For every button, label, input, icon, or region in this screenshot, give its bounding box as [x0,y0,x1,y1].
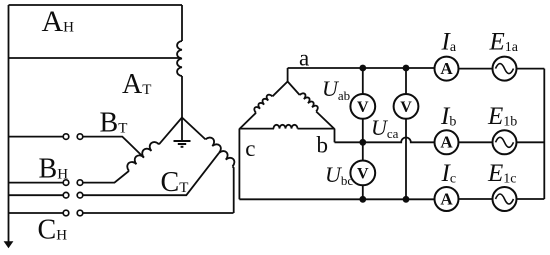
inductor: delta winding bc (bottom edge) [274,125,298,129]
arrow: phase-sequence arrow at bottom of bus [4,241,14,248]
svg-text:a: a [299,46,309,71]
wire: delta apex stub to phase a [287,68,289,82]
svg-text:b: b [317,133,329,158]
svg-text:V: V [357,99,369,116]
svg-text:A: A [440,59,453,78]
switch contact: C_T row right [77,192,83,198]
wire: delta node b stub down [334,129,336,143]
source E_1a body [493,57,517,81]
wire: B_T row to tap diagonal [83,137,144,158]
wire: B_H row from bus [9,182,64,184]
inductor: delta winding ab (right slant) [300,92,320,112]
ammeter I_b body [435,130,459,154]
wire: star point to ground stub [181,118,183,141]
wire: source a to right rail [516,68,544,70]
wire: voltmeter branch a-b upper [362,68,364,94]
wire: delta right slant upper part [288,82,300,96]
wire: left supply bus [8,5,10,242]
wire: C_H row from bus [9,212,64,214]
wire: voltmeter branch a-b lower [362,119,364,161]
inductor: autotransformer winding B_T [125,140,159,171]
wire: drop to top of winding A [181,5,183,41]
node: junction phase a / U_ca [403,65,410,72]
wire: voltmeter branch b-c lower [362,185,364,199]
sine symbol of source E_1c [496,194,514,204]
wire: phase a line [288,67,435,69]
switch contact: C_T row left [63,192,69,198]
node: junction phase b / U_ab [359,139,366,146]
node: junction phase c / U_bc [359,196,366,203]
svg-text:c: c [245,136,255,161]
wire: phase c line [239,198,434,200]
voltmeter U_ab body [350,94,375,119]
ammeter I_a body [435,57,459,81]
ammeter I_c body [435,187,459,211]
wire: delta node c down [238,129,240,200]
source E_1c body [493,187,517,211]
wire: delta left slant lower part [239,113,256,129]
switch contact: B_H row right [77,180,83,186]
wire: ammeter a to source a [458,68,492,70]
wire: ammeter b to source b [458,141,492,143]
switch contact: C_H row left [63,210,69,216]
wire: top feeder to winding A [9,4,183,6]
svg-text:V: V [357,165,369,182]
wire: voltmeter branch c-a lower [405,119,407,200]
switch contact: C_H row right [77,210,83,216]
source E_1b body [493,130,517,154]
wire: winding A bottom to star point [181,76,183,118]
voltmeter U_ca body [394,94,419,119]
sine symbol of source E_1a [496,64,514,74]
svg-text:V: V [400,99,412,116]
switch contact: B_H row left [63,180,69,186]
wire: delta left slant upper part [273,82,288,97]
voltmeter U_bc body [350,161,375,186]
sine symbol of source E_1b [496,137,514,147]
wire: C_T row to tap diagonal [83,153,219,195]
wire: B_T tap row from bus [9,136,64,138]
switch contact: B_T row left [63,134,69,140]
wire: source b to right rail [516,141,544,143]
inductor: delta winding ca (left slant) [253,93,273,113]
wire: A_H tap wire [9,57,182,59]
wire: delta right slant lower part [316,112,334,130]
svg-text:A: A [440,189,453,208]
wire: source c to right rail [516,198,544,200]
wire: phase b line with crossover hop [335,138,435,143]
wire: C_T row from bus [9,194,64,196]
wire: ammeter c to source c [458,198,492,200]
wire: right rail [543,69,545,199]
ground: earth symbol at star point [174,141,191,147]
wire: C_H row to winding C bottom [83,212,234,214]
inductor: autotransformer winding C_T [206,135,237,166]
wire: star point to winding C (upper diagonal) [182,118,206,140]
switch contact: B_T row right [77,134,83,140]
svg-text:A: A [440,133,453,152]
inductor: autotransformer winding A_T [177,41,182,76]
wire: star point to winding B (upper diagonal) [159,118,182,145]
node: junction phase c / U_ca [403,196,410,203]
wire: delta bottom edge right part [298,128,335,130]
wire: winding C lower end to corner [233,166,234,213]
wire: delta bottom edge left part [239,128,274,130]
wire: voltmeter branch c-a upper [405,68,407,94]
node: junction phase a / U_ab [359,65,366,72]
wire: B_H row to winding B lower end [83,171,129,183]
